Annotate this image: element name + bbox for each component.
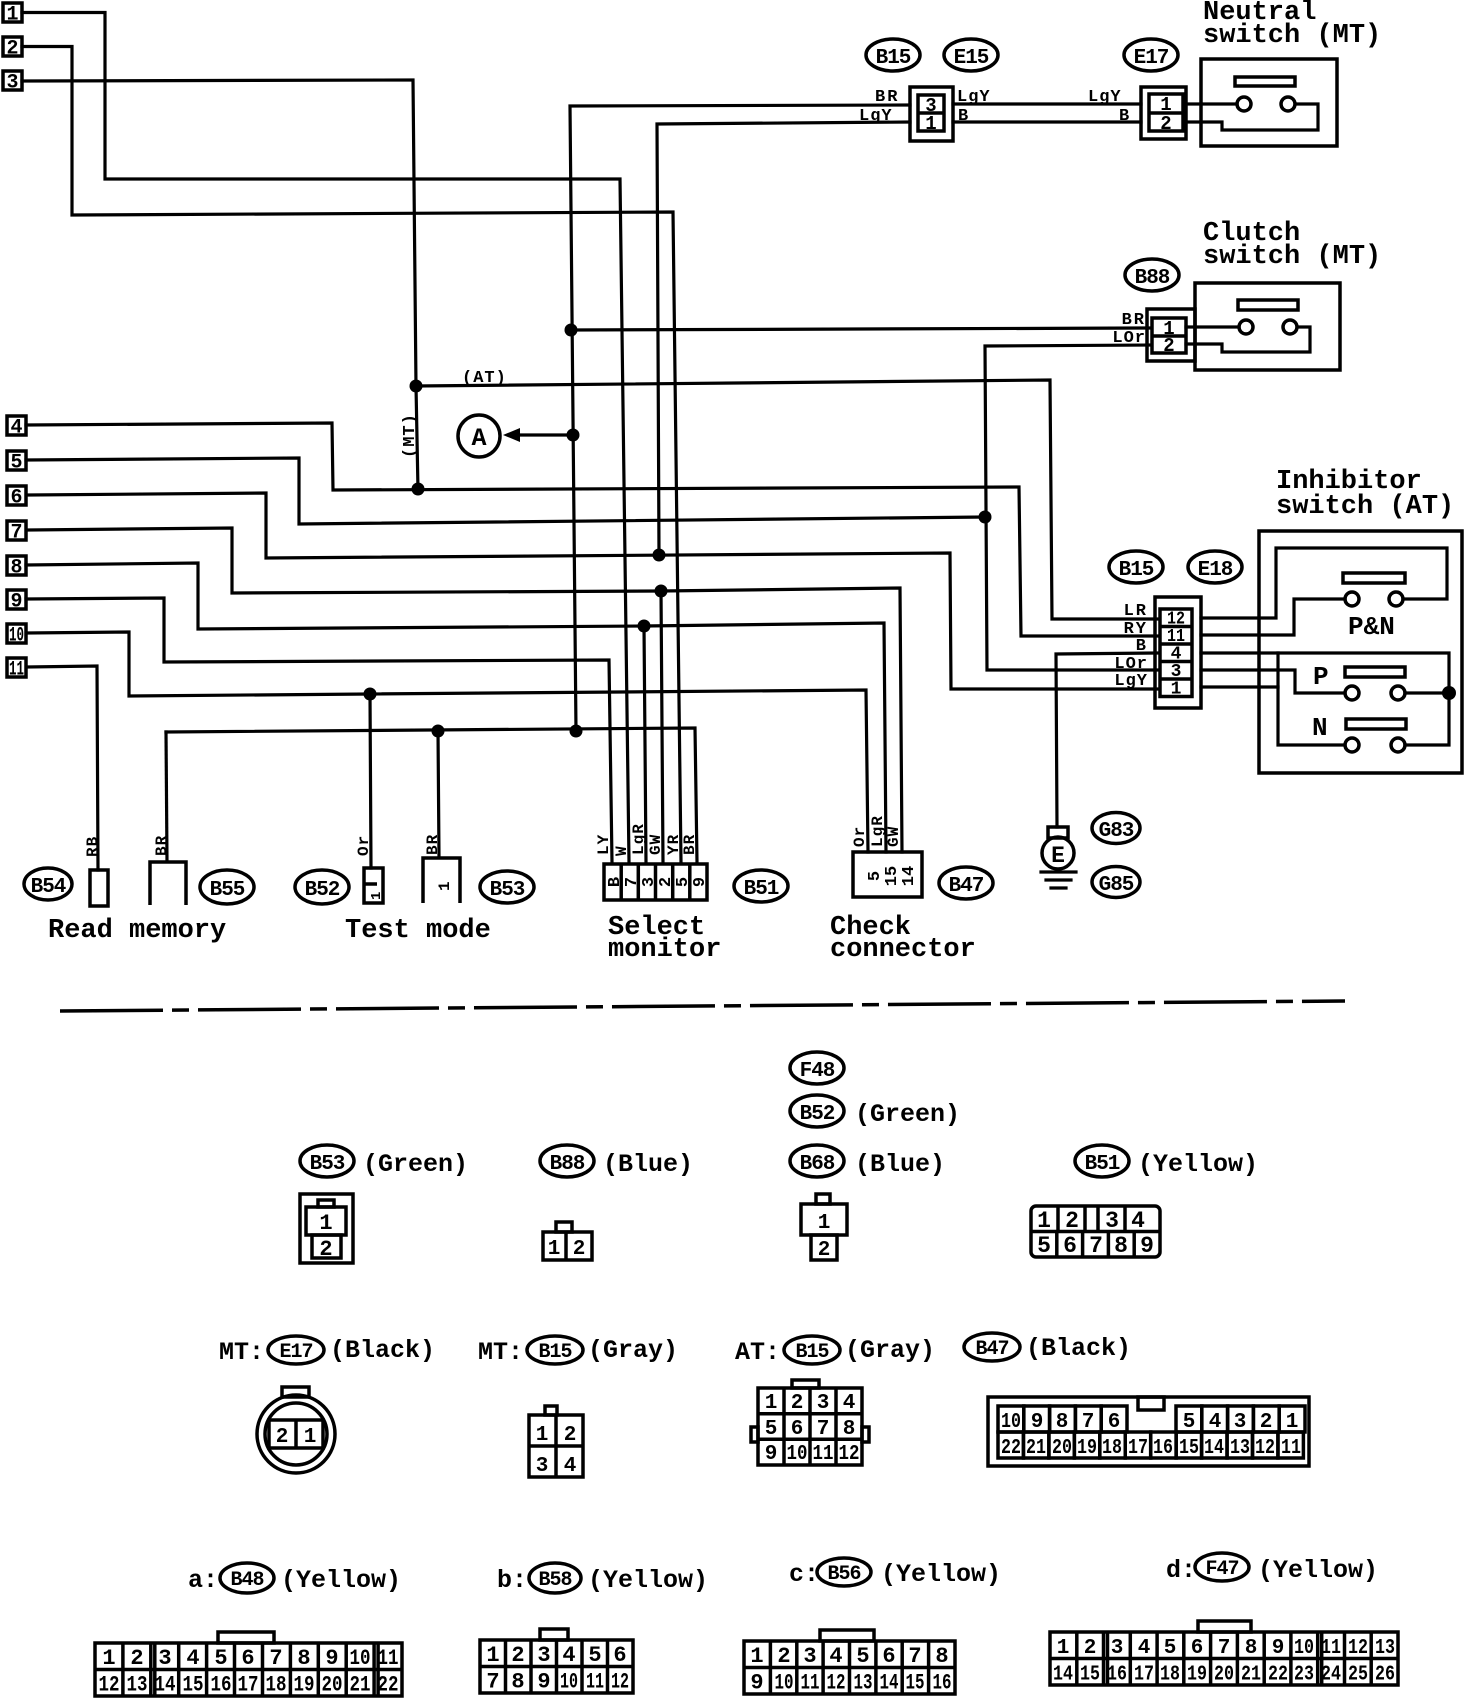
svg-text:24: 24 bbox=[1321, 1664, 1341, 1687]
svg-text:E: E bbox=[1051, 843, 1065, 869]
connector label E17 bbox=[1124, 39, 1178, 71]
connector label B58 bbox=[529, 1563, 581, 1593]
wire GW drop to select pin4 bbox=[661, 591, 663, 862]
svg-text:6: 6 bbox=[241, 1646, 254, 1671]
svg-text:7: 7 bbox=[1218, 1637, 1231, 1660]
svg-text:LgY: LgY bbox=[859, 107, 893, 126]
svg-text:P&N: P&N bbox=[1348, 612, 1395, 642]
svg-text:4: 4 bbox=[829, 1644, 842, 1669]
connector B54 RB bbox=[90, 870, 108, 906]
svg-text:17: 17 bbox=[1128, 1437, 1148, 1460]
node junction BR/B53 bbox=[432, 725, 445, 738]
wire pin4 B rail to P/N right contacts bbox=[1201, 653, 1449, 745]
pinout B15 4x3 bbox=[751, 1380, 869, 1466]
svg-text:25: 25 bbox=[1348, 1664, 1368, 1687]
svg-text:18: 18 bbox=[1102, 1437, 1122, 1460]
N contact circle 1 bbox=[1345, 738, 1359, 752]
svg-text:(Gray): (Gray) bbox=[588, 1336, 678, 1365]
svg-text:F47: F47 bbox=[1205, 1558, 1238, 1581]
wire net4: terminal 4 + MT branch to inhibitor pin11 RY bbox=[26, 423, 1157, 636]
svg-text:3: 3 bbox=[817, 1392, 830, 1415]
svg-text:Test mode: Test mode bbox=[345, 916, 491, 946]
svg-text:E17: E17 bbox=[1134, 47, 1169, 70]
svg-text:10: 10 bbox=[350, 1646, 371, 1671]
pinout B53 bbox=[300, 1194, 353, 1263]
svg-text:5: 5 bbox=[765, 1418, 778, 1441]
svg-text:Or: Or bbox=[355, 835, 373, 856]
svg-text:7: 7 bbox=[486, 1670, 499, 1695]
svg-text:13: 13 bbox=[127, 1673, 148, 1698]
svg-text:(Blue): (Blue) bbox=[603, 1150, 693, 1179]
svg-text:5: 5 bbox=[1164, 1637, 1177, 1660]
svg-text:1: 1 bbox=[818, 1212, 831, 1235]
svg-text:BR: BR bbox=[875, 88, 899, 107]
connector label B52b bbox=[790, 1095, 844, 1127]
pinout B48 bbox=[95, 1632, 402, 1698]
circled A reference bbox=[458, 415, 500, 457]
svg-text:B48: B48 bbox=[230, 1569, 263, 1592]
P&N contact circle 1 bbox=[1345, 592, 1359, 606]
pinout B56 bbox=[744, 1630, 955, 1696]
P contact circle 2 bbox=[1391, 686, 1405, 700]
wire pin1 LgY to N left contact bbox=[1201, 685, 1278, 688]
svg-text:14: 14 bbox=[155, 1673, 176, 1698]
svg-text:8: 8 bbox=[843, 1418, 856, 1441]
svg-text:BR: BR bbox=[424, 834, 442, 855]
connector label B53a bbox=[480, 871, 534, 903]
svg-text:1: 1 bbox=[6, 4, 18, 27]
node junction LgY bbox=[653, 549, 666, 562]
svg-text:9: 9 bbox=[750, 1671, 763, 1696]
pinout F47 bbox=[1050, 1621, 1398, 1687]
connector check (5,15,14) bbox=[853, 852, 922, 897]
connector label B47b bbox=[964, 1333, 1020, 1361]
svg-text:1: 1 bbox=[750, 1644, 763, 1669]
terminal box 11 bbox=[7, 658, 26, 682]
svg-text:9: 9 bbox=[1272, 1637, 1285, 1660]
svg-text:monitor: monitor bbox=[608, 935, 721, 965]
svg-text:B51: B51 bbox=[1085, 1153, 1120, 1176]
svg-text:14: 14 bbox=[880, 1671, 899, 1696]
node junction BR/clutch bbox=[565, 324, 578, 337]
svg-text:N: N bbox=[1312, 713, 1328, 743]
svg-text:18: 18 bbox=[1160, 1664, 1180, 1687]
svg-text:4: 4 bbox=[562, 1643, 575, 1668]
clutch switch slot bbox=[1238, 300, 1298, 310]
svg-text:B47: B47 bbox=[975, 1338, 1008, 1361]
terminal box 8 bbox=[7, 556, 26, 580]
svg-text:19: 19 bbox=[294, 1673, 315, 1698]
wire (AT) branch to inhibitor pin12 LR bbox=[416, 380, 1157, 619]
svg-text:11: 11 bbox=[586, 1670, 604, 1695]
svg-text:(Gray): (Gray) bbox=[845, 1336, 935, 1365]
svg-text:LOr: LOr bbox=[1112, 329, 1146, 348]
svg-text:12: 12 bbox=[99, 1673, 120, 1698]
wire B15/E15 to E17 pin1 LgY bbox=[953, 102, 1141, 105]
svg-text:1: 1 bbox=[536, 1424, 549, 1447]
wire net6: terminal 6 to inhibitor pin1 LgY bbox=[29, 493, 1157, 689]
svg-text:1: 1 bbox=[1037, 1208, 1051, 1234]
svg-text:17: 17 bbox=[238, 1673, 259, 1698]
svg-text:6: 6 bbox=[882, 1644, 895, 1669]
svg-text:6: 6 bbox=[791, 1418, 804, 1441]
N contact circle 2 bbox=[1391, 738, 1405, 752]
terminal box 4 bbox=[7, 416, 26, 440]
terminal box 6 bbox=[7, 486, 26, 510]
svg-text:LgY: LgY bbox=[1114, 672, 1148, 691]
connector label B51a bbox=[734, 870, 788, 902]
wire net10: terminal 10 Or to check pin5 bbox=[27, 632, 868, 852]
svg-text:(Yellow): (Yellow) bbox=[588, 1566, 708, 1595]
svg-text:G83: G83 bbox=[1099, 820, 1134, 843]
svg-text:2: 2 bbox=[791, 1392, 804, 1415]
svg-text:9: 9 bbox=[325, 1646, 338, 1671]
ground E circle bbox=[1042, 837, 1074, 869]
connector label G83 bbox=[1092, 813, 1140, 844]
svg-text:B52: B52 bbox=[305, 879, 340, 902]
wire B55 drop bbox=[166, 732, 167, 861]
connector label F48 bbox=[790, 1052, 844, 1084]
svg-text:12: 12 bbox=[839, 1443, 860, 1466]
svg-text:switch (MT): switch (MT) bbox=[1203, 21, 1381, 51]
svg-text:2: 2 bbox=[573, 1238, 586, 1261]
svg-text:B: B bbox=[1136, 637, 1148, 656]
wire inhibitor pin4 B to ground bbox=[1056, 653, 1157, 827]
arrowhead bbox=[503, 428, 520, 442]
svg-text:16: 16 bbox=[933, 1671, 952, 1696]
terminal box 7 bbox=[7, 521, 26, 545]
svg-text:B15: B15 bbox=[795, 1341, 828, 1364]
connector B15/E18 (pins 12,11,4,3,1) bbox=[1155, 597, 1201, 708]
svg-text:(Black): (Black) bbox=[330, 1336, 435, 1365]
svg-text:AT:: AT: bbox=[735, 1338, 780, 1367]
node junction P contact bbox=[1442, 686, 1456, 700]
wire net7: terminal 7 GW to check pin14 bbox=[29, 528, 902, 852]
connector label B47a bbox=[939, 867, 993, 899]
svg-text:connector: connector bbox=[830, 935, 976, 965]
svg-text:19: 19 bbox=[1077, 1437, 1097, 1460]
svg-text:7: 7 bbox=[908, 1644, 921, 1669]
node junction GW bbox=[655, 585, 668, 598]
svg-text:8: 8 bbox=[511, 1670, 524, 1695]
svg-text:3: 3 bbox=[803, 1644, 816, 1669]
pinout B68 bbox=[801, 1194, 847, 1262]
terminal box 10 bbox=[7, 624, 26, 648]
svg-text:10: 10 bbox=[9, 625, 24, 648]
svg-text:20: 20 bbox=[1214, 1664, 1234, 1687]
svg-text:switch (MT): switch (MT) bbox=[1203, 242, 1381, 272]
svg-text:9: 9 bbox=[10, 591, 22, 614]
wire clutch pin1 BR branch bbox=[571, 328, 1151, 330]
svg-text:4: 4 bbox=[1131, 1208, 1145, 1234]
svg-text:11: 11 bbox=[378, 1646, 399, 1671]
svg-text:2: 2 bbox=[130, 1646, 143, 1671]
node junction MT on net4 bbox=[412, 483, 425, 496]
svg-text:(Green): (Green) bbox=[855, 1100, 960, 1129]
terminal box 9 bbox=[7, 590, 26, 614]
svg-text:2: 2 bbox=[1065, 1208, 1079, 1234]
svg-text:9: 9 bbox=[1140, 1233, 1154, 1259]
wire BR net: B15/E15 pin3 BR down to BR rail bbox=[570, 105, 910, 731]
connector label B15c bbox=[527, 1336, 583, 1364]
svg-text:4: 4 bbox=[10, 417, 22, 440]
svg-text:20: 20 bbox=[1052, 1437, 1072, 1460]
neutral switch body bbox=[1201, 59, 1337, 146]
wire B15/E15 to E17 pin2 B bbox=[953, 120, 1141, 123]
connector B88 (pins 1,2) bbox=[1147, 309, 1195, 361]
svg-text:11: 11 bbox=[801, 1671, 820, 1696]
connector B55 BR bbox=[150, 862, 186, 905]
connector label E15 bbox=[944, 39, 998, 71]
svg-text:(MT): (MT) bbox=[401, 413, 420, 458]
svg-text:B56: B56 bbox=[827, 1563, 860, 1586]
connector label F47 bbox=[1195, 1553, 1249, 1581]
svg-text:11: 11 bbox=[9, 659, 24, 682]
svg-text:12: 12 bbox=[611, 1670, 629, 1695]
svg-text:LR: LR bbox=[1124, 602, 1148, 621]
wire net2: terminal 2 to select monitor pin5 YR bbox=[22, 47, 681, 863]
clutch switch body bbox=[1195, 283, 1340, 370]
svg-text:6: 6 bbox=[613, 1643, 626, 1668]
svg-text:3: 3 bbox=[6, 72, 18, 95]
svg-text:RB: RB bbox=[84, 836, 102, 857]
svg-text:10: 10 bbox=[775, 1671, 794, 1696]
connector label B15d bbox=[784, 1336, 840, 1364]
svg-text:16: 16 bbox=[1107, 1664, 1127, 1687]
svg-text:5: 5 bbox=[1037, 1233, 1051, 1259]
svg-text:B52: B52 bbox=[800, 1103, 835, 1126]
wire pin11 to P&N left contact bbox=[1201, 599, 1345, 635]
P slot bbox=[1345, 667, 1405, 677]
svg-text:1: 1 bbox=[102, 1646, 115, 1671]
svg-text:(Yellow): (Yellow) bbox=[1138, 1150, 1258, 1179]
svg-text:B51: B51 bbox=[744, 878, 779, 901]
svg-text:11: 11 bbox=[1321, 1637, 1341, 1660]
wire arrow to A bbox=[513, 433, 573, 436]
svg-text:8: 8 bbox=[1114, 1233, 1128, 1259]
connector label B15 bbox=[866, 39, 920, 71]
svg-text:17: 17 bbox=[1134, 1664, 1154, 1687]
pinout B47 bbox=[988, 1397, 1309, 1466]
svg-text:18: 18 bbox=[266, 1673, 287, 1698]
ground hatch bbox=[1041, 872, 1076, 888]
svg-text:Or: Or bbox=[851, 826, 869, 847]
svg-text:13: 13 bbox=[1230, 1437, 1250, 1460]
svg-text:21: 21 bbox=[350, 1673, 371, 1698]
svg-text:2: 2 bbox=[6, 38, 18, 61]
contact circle 1 bbox=[1237, 97, 1251, 111]
wire pin1 to contact bbox=[1186, 325, 1239, 328]
wire pin12 to P&N right contact bbox=[1201, 548, 1447, 618]
svg-text:2: 2 bbox=[319, 1237, 332, 1262]
wire net9: terminal 9 to select pin1 LY bbox=[26, 598, 612, 862]
svg-text:W: W bbox=[613, 845, 631, 856]
contact circle 2 bbox=[1281, 97, 1295, 111]
connector label B52a bbox=[295, 870, 349, 904]
wire B53 drop bbox=[438, 731, 439, 857]
svg-text:b:: b: bbox=[497, 1566, 527, 1595]
N slot bbox=[1346, 719, 1406, 729]
svg-text:7: 7 bbox=[10, 522, 22, 545]
terminal box 3 bbox=[3, 71, 22, 95]
svg-text:15: 15 bbox=[906, 1671, 925, 1696]
svg-text:(Yellow): (Yellow) bbox=[281, 1566, 401, 1595]
connector label B53b bbox=[300, 1145, 354, 1177]
node junction BR rail bbox=[570, 725, 583, 738]
svg-text:4: 4 bbox=[186, 1646, 199, 1671]
terminal box 2 bbox=[3, 37, 22, 61]
svg-text:11: 11 bbox=[1281, 1437, 1301, 1460]
svg-text:3: 3 bbox=[1111, 1637, 1124, 1660]
svg-text:MT:: MT: bbox=[219, 1338, 264, 1367]
connector label B56 bbox=[817, 1558, 871, 1586]
svg-text:LgR: LgR bbox=[630, 823, 648, 855]
svg-text:GW: GW bbox=[885, 826, 903, 847]
svg-text:1: 1 bbox=[304, 1426, 317, 1449]
svg-text:21: 21 bbox=[1241, 1664, 1261, 1687]
pinout B88 bbox=[543, 1222, 592, 1261]
svg-text:2: 2 bbox=[276, 1426, 289, 1449]
svg-text:d:: d: bbox=[1166, 1556, 1196, 1585]
svg-text:F48: F48 bbox=[800, 1060, 835, 1083]
wire net3: terminal 3 to AT/MT junction bbox=[22, 80, 416, 386]
svg-text:2: 2 bbox=[1160, 113, 1171, 135]
svg-text:5: 5 bbox=[10, 452, 22, 475]
wire pin3 LOr to P left contact bbox=[1201, 670, 1345, 693]
wire Or drop to B52 test-mode connector bbox=[370, 694, 371, 868]
svg-text:3: 3 bbox=[158, 1646, 171, 1671]
pinout B58 bbox=[480, 1629, 633, 1695]
svg-text:5: 5 bbox=[588, 1643, 601, 1668]
svg-text:12: 12 bbox=[827, 1671, 846, 1696]
svg-text:3: 3 bbox=[537, 1643, 550, 1668]
svg-text:B53: B53 bbox=[310, 1153, 345, 1176]
svg-text:(AT): (AT) bbox=[462, 369, 507, 388]
svg-text:22: 22 bbox=[1001, 1437, 1021, 1460]
connector label B48 bbox=[220, 1563, 274, 1593]
svg-text:c:: c: bbox=[789, 1560, 819, 1589]
svg-text:6: 6 bbox=[10, 487, 22, 510]
svg-text:8: 8 bbox=[935, 1644, 948, 1669]
wire net5: terminal 5 joins LOr net bbox=[26, 458, 984, 524]
connector select monitor (B,7,3,2,5,9) bbox=[604, 864, 710, 900]
node junction BR/A bbox=[567, 429, 580, 442]
svg-text:1: 1 bbox=[548, 1238, 561, 1261]
svg-text:B47: B47 bbox=[949, 875, 984, 898]
svg-text:4: 4 bbox=[1138, 1637, 1151, 1660]
svg-text:3: 3 bbox=[1105, 1208, 1119, 1234]
connector B15/E15 (pins 3,1) bbox=[910, 87, 953, 141]
svg-text:6: 6 bbox=[1191, 1637, 1204, 1660]
pinout B51 bbox=[1031, 1206, 1160, 1259]
svg-text:2: 2 bbox=[511, 1643, 524, 1668]
svg-text:G85: G85 bbox=[1099, 874, 1134, 897]
svg-text:12: 12 bbox=[1255, 1437, 1275, 1460]
svg-text:(Yellow): (Yellow) bbox=[1258, 1556, 1378, 1585]
svg-text:9: 9 bbox=[765, 1443, 778, 1466]
svg-text:2: 2 bbox=[1084, 1637, 1097, 1660]
connector E17 (pins 1,2) bbox=[1141, 87, 1186, 139]
svg-text:5: 5 bbox=[856, 1644, 869, 1669]
svg-text:(Yellow): (Yellow) bbox=[881, 1560, 1001, 1589]
svg-text:16: 16 bbox=[211, 1673, 232, 1698]
wire pin1 to contact bbox=[1186, 102, 1237, 105]
svg-text:B: B bbox=[1119, 107, 1130, 126]
svg-text:11: 11 bbox=[813, 1443, 834, 1466]
node junction LgR bbox=[638, 620, 651, 633]
svg-text:1: 1 bbox=[319, 1211, 332, 1236]
svg-text:P: P bbox=[1313, 662, 1329, 692]
svg-text:1: 1 bbox=[925, 113, 936, 135]
svg-text:2: 2 bbox=[564, 1424, 577, 1447]
terminal box 1 bbox=[3, 3, 22, 27]
svg-text:BR: BR bbox=[153, 835, 171, 856]
svg-text:2: 2 bbox=[1163, 335, 1174, 357]
connector label B54 bbox=[24, 868, 72, 900]
connector label B55 bbox=[200, 870, 254, 904]
wire net1: terminal 1 to select monitor pin2 W bbox=[22, 13, 629, 863]
wire pin2 loop bbox=[1186, 104, 1318, 130]
connector B53 test mode bbox=[423, 858, 460, 903]
svg-text:2: 2 bbox=[777, 1644, 790, 1669]
svg-text:22: 22 bbox=[1268, 1664, 1288, 1687]
svg-text:5: 5 bbox=[214, 1646, 227, 1671]
svg-text:1: 1 bbox=[486, 1643, 499, 1668]
svg-text:10: 10 bbox=[787, 1443, 808, 1466]
contact circle 2 bbox=[1283, 320, 1297, 334]
svg-text:B88: B88 bbox=[1135, 267, 1170, 290]
connector label B88 bbox=[1125, 259, 1179, 291]
terminal box 5 bbox=[7, 451, 26, 475]
svg-text:1: 1 bbox=[1171, 680, 1182, 700]
svg-text:B15: B15 bbox=[876, 47, 911, 70]
svg-text:7: 7 bbox=[269, 1646, 282, 1671]
svg-text:10: 10 bbox=[560, 1670, 578, 1695]
svg-text:22: 22 bbox=[378, 1673, 399, 1698]
svg-text:8: 8 bbox=[10, 557, 22, 580]
wire LgR drop to select pin3 bbox=[644, 626, 646, 862]
svg-text:8: 8 bbox=[297, 1646, 310, 1671]
svg-text:E18: E18 bbox=[1198, 559, 1233, 582]
wire clutch pin2 LOr down to inhibitor pin3 bbox=[985, 345, 1157, 670]
connector label B15b bbox=[1109, 551, 1163, 583]
connector label B68 bbox=[790, 1145, 844, 1177]
connector label E18 bbox=[1188, 551, 1242, 583]
node junction Or bbox=[364, 688, 377, 701]
svg-text:E15: E15 bbox=[954, 47, 989, 70]
node junction AT/MT bbox=[410, 380, 423, 393]
svg-text:1: 1 bbox=[436, 881, 454, 891]
svg-text:13: 13 bbox=[1375, 1637, 1395, 1660]
svg-text:14: 14 bbox=[900, 866, 919, 886]
node junction net5/LOr bbox=[979, 511, 992, 524]
lower unit left rail bbox=[1278, 653, 1345, 745]
wire net8: terminal 8 LgR to check pin15 bbox=[26, 563, 886, 852]
svg-text:B55: B55 bbox=[210, 879, 245, 902]
wire (MT) branch bbox=[416, 386, 418, 490]
svg-text:1: 1 bbox=[765, 1392, 778, 1415]
inhibitor switch body bbox=[1259, 531, 1462, 773]
connector B52 test mode bbox=[364, 868, 385, 903]
svg-text:12: 12 bbox=[1348, 1637, 1368, 1660]
svg-text:(Green): (Green) bbox=[363, 1150, 468, 1179]
svg-text:7: 7 bbox=[1089, 1233, 1103, 1259]
P&N slot bbox=[1343, 573, 1405, 583]
svg-text:(Blue): (Blue) bbox=[855, 1150, 945, 1179]
svg-text:9: 9 bbox=[691, 877, 710, 887]
svg-text:26: 26 bbox=[1375, 1664, 1395, 1687]
svg-text:B15: B15 bbox=[538, 1341, 571, 1364]
